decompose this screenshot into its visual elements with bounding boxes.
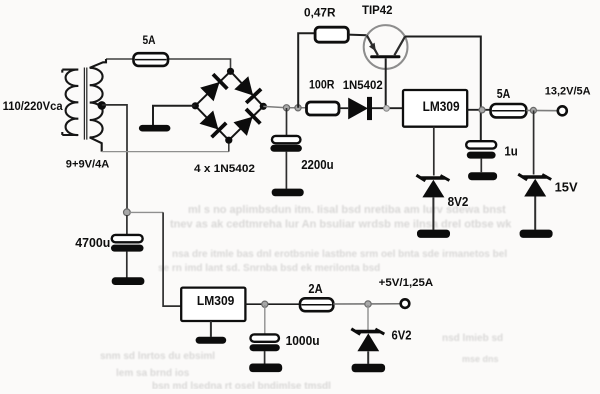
capacitor 1000u	[250, 334, 279, 341]
svg-text:6V2: 6V2	[392, 328, 412, 343]
diode 1N5402 (series)	[348, 98, 368, 120]
svg-text:1N5402: 1N5402	[343, 78, 383, 92]
regulator U1 LM309	[403, 90, 467, 127]
bridge node left	[192, 102, 199, 109]
svg-text:100R: 100R	[309, 77, 335, 91]
wire node B up to 0,47R	[298, 33, 315, 108]
svg-text:4700u: 4700u	[75, 235, 110, 250]
wire LM309-1 ground pin to zener 8V2	[433, 127, 435, 176]
output terminal +5V	[401, 299, 410, 308]
ground (8V2)	[417, 230, 450, 238]
svg-text:15V: 15V	[555, 180, 579, 194]
svg-text:110/220Vca: 110/220Vca	[3, 99, 63, 113]
wire 100R to diode 1N5402	[339, 107, 348, 109]
wire secondary-top to fuse F1	[106, 58, 134, 60]
svg-text:0,47R: 0,47R	[304, 8, 336, 20]
ground (LM309-2)	[196, 337, 227, 344]
svg-text:1000u: 1000u	[286, 333, 320, 348]
regulator U2 LM309	[181, 288, 245, 321]
wire center tap to node F	[102, 105, 127, 212]
capacitor 1u	[466, 141, 496, 148]
svg-text:+5V/1,25A: +5V/1,25A	[379, 277, 434, 289]
svg-text:4 x 1N5402: 4 x 1N5402	[194, 163, 255, 175]
wire node H down to zener 6V2	[367, 305, 369, 331]
ground (1u)	[468, 172, 497, 180]
svg-text:8V2: 8V2	[448, 194, 469, 209]
wire bridge right to 100R	[263, 106, 306, 107]
node E (15V junction)	[530, 107, 536, 113]
wire fuse F1 to bridge top	[168, 59, 231, 71]
wire diode to LM309-1 input	[372, 107, 403, 109]
zener 15V	[523, 175, 547, 179]
svg-text:LM309: LM309	[197, 293, 235, 308]
TIP42 base bar	[370, 55, 400, 58]
ground (2200u)	[272, 189, 304, 197]
bridge diode D1 (left-top)	[195, 71, 230, 106]
ground (1000u)	[249, 364, 282, 373]
svg-text:2A: 2A	[308, 281, 323, 296]
resistor 0,47R	[315, 27, 348, 42]
node G (1000u junction)	[262, 301, 268, 307]
node C (LM309-1 input / base)	[384, 105, 390, 111]
bridge diode D3 (left-bottom)	[195, 106, 229, 140]
wire 0,47R to TIP42 emitter	[348, 34, 367, 37]
fuse F2 5A	[491, 104, 527, 117]
wire node A down to 2200u	[286, 108, 288, 136]
svg-text:LM309: LM309	[423, 99, 460, 114]
svg-text:TIP42: TIP42	[362, 3, 393, 17]
svg-text:9+9V/4A: 9+9V/4A	[66, 159, 110, 171]
ground (6V2)	[352, 364, 386, 373]
svg-text:13,2V/5A: 13,2V/5A	[545, 86, 591, 98]
wire riser to bridge bottom node	[228, 140, 230, 151]
svg-text:nsa dre itmle bas dnl erotbsni: nsa dre itmle bas dnl erotbsnie lastbne …	[172, 249, 507, 260]
wire node G down to 1000u	[264, 305, 266, 335]
wire bridge left to ground	[153, 106, 195, 125]
wire 2200u to ground	[285, 151, 287, 189]
svg-text:se rn imd lant sd. Snrnba bsd: se rn imd lant sd. Snrnba bsd ek merilon…	[158, 263, 380, 274]
wire 1u to ground	[480, 159, 482, 173]
transformer core	[84, 68, 86, 140]
wire 15V to ground	[534, 197, 536, 230]
ground (4700u)	[112, 277, 145, 285]
center tap dot	[98, 101, 107, 110]
svg-text:5A: 5A	[143, 35, 156, 47]
node A (2200u junction)	[283, 105, 289, 111]
zener 8V2	[421, 176, 445, 180]
wire LM309-1 output to fuse F2	[467, 109, 490, 111]
TIP42 collector line	[394, 36, 405, 55]
wire TIP42 base down to node C	[385, 58, 387, 108]
wire 1000u to ground	[264, 351, 266, 364]
svg-text:nsd lmieb sd: nsd lmieb sd	[442, 333, 503, 344]
svg-text:lem sa brnd ios: lem sa brnd ios	[116, 368, 190, 379]
bridge node top	[227, 68, 234, 75]
svg-text:bsn md lsedna rt osel bndimlse: bsn md lsedna rt osel bndimlse tmsdl	[152, 381, 331, 389]
bridge diode D4 (bottom-right)	[229, 106, 263, 140]
wire F3 to +5V terminal	[333, 303, 401, 305]
wire 6V2 to ground	[367, 351, 369, 364]
capacitor 2200u	[272, 136, 301, 143]
svg-text:1u: 1u	[504, 144, 517, 159]
svg-text:tnev as ak cedtmreha lur An bs: tnev as ak cedtmreha lur An bsuliar wrds…	[170, 219, 512, 231]
wire F2 to output terminal	[526, 109, 557, 111]
zener 6V2	[356, 330, 380, 334]
ground (bridge left)	[139, 125, 171, 132]
fuse F3 2A	[300, 298, 333, 311]
wire LM309-2 output to fuse F3	[245, 303, 300, 305]
wire node F to 4700u	[126, 215, 128, 235]
bridge node right	[260, 103, 267, 110]
capacitor 4700u	[112, 235, 143, 242]
wire node F to LM309-2 input	[130, 211, 163, 213]
node B (0,47R junction)	[295, 105, 301, 111]
ground (15V)	[520, 230, 553, 238]
transistor Q1 TIP42 body circle	[364, 25, 408, 69]
node H (6V2 junction)	[365, 301, 371, 307]
fuse F1 5A	[134, 53, 169, 66]
wire TIP42 collector to output rail	[405, 37, 481, 142]
output terminal 13,2V/5A	[558, 106, 567, 115]
transformer secondary winding 9+9V/4A	[90, 59, 106, 152]
transformer primary winding 110/220Vca	[62, 70, 78, 135]
TIP42 emitter line with arrow	[367, 35, 378, 55]
svg-text:2200u: 2200u	[301, 157, 334, 172]
svg-text:5A: 5A	[497, 87, 511, 101]
wire LM309-2 ground pin	[210, 321, 212, 337]
wire 4700u to ground	[126, 251, 128, 277]
node D (collector join)	[479, 107, 485, 113]
wire bottom rail secondary to bridge bottom	[102, 151, 229, 153]
resistor 100R	[307, 102, 340, 115]
wire 8V2 to ground	[432, 197, 434, 229]
bridge diode D2 (top-right)	[231, 71, 264, 106]
svg-text:mse dns: mse dns	[462, 354, 499, 364]
node F (4700u junction)	[124, 209, 131, 216]
svg-text:snm sd lnrtos du ebsiml: snm sd lnrtos du ebsiml	[100, 351, 215, 362]
wire node E down to zener 15V	[533, 110, 535, 174]
bridge node bottom	[225, 137, 232, 144]
